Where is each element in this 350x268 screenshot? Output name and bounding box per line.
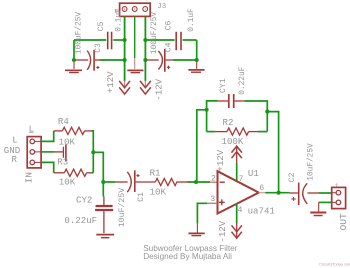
capacitor C6 bbox=[176, 32, 181, 50]
wire J3 pin2 to GND bbox=[134, 17, 136, 59]
svg-text:C5: C5 bbox=[97, 22, 106, 32]
svg-text:10K: 10K bbox=[59, 137, 76, 148]
svg-text:-12V: -12V bbox=[217, 220, 228, 242]
svg-text:C6: C6 bbox=[165, 21, 174, 31]
svg-text:OUT: OUT bbox=[338, 213, 349, 231]
wire J3 pin3 to -12V bbox=[144, 17, 146, 82]
supply -12V arrow (power section) bbox=[140, 81, 151, 95]
resistor R4 bbox=[54, 127, 92, 134]
wire top rail right (C6 rail) bbox=[145, 39, 174, 41]
svg-text:0.1uF: 0.1uF bbox=[188, 8, 196, 32]
wire C3 to +12V rail bbox=[100, 59, 125, 61]
junction right ground node bbox=[195, 58, 199, 62]
wire CY1 right bbox=[245, 101, 268, 132]
svg-text:U1: U1 bbox=[248, 168, 259, 179]
svg-text:-12V: -12V bbox=[154, 78, 165, 100]
svg-text:2: 2 bbox=[211, 175, 216, 184]
junction feedback right bbox=[265, 110, 269, 114]
junction +12V/C3 bbox=[123, 58, 127, 62]
wire L pin to R4 bbox=[41, 131, 54, 142]
supply -12V arrow (opamp) bbox=[232, 223, 242, 239]
junction output node bbox=[277, 191, 281, 195]
junction feedback left bbox=[205, 108, 209, 112]
capacitor C3 bbox=[76, 50, 100, 71]
resistor R2 bbox=[207, 128, 268, 135]
svg-text:10K: 10K bbox=[150, 186, 167, 197]
resistor R1 bbox=[155, 178, 187, 185]
capacitor C5 bbox=[108, 32, 112, 50]
junction +12V/C5 bbox=[123, 38, 127, 42]
wire R pin to R3 bbox=[41, 162, 54, 172]
feedback left rail vertical bbox=[207, 101, 218, 132]
svg-text:100uF/25V: 100uF/25V bbox=[75, 12, 83, 54]
svg-text:6: 6 bbox=[259, 184, 264, 193]
wire node to C1 bbox=[103, 181, 115, 183]
svg-text:10uF/25V: 10uF/25V bbox=[308, 143, 316, 181]
wire R1 to opamp bbox=[187, 181, 210, 183]
svg-text:0.1uF: 0.1uF bbox=[115, 8, 123, 32]
wire output pin2 to ground bbox=[319, 201, 332, 203]
wire sum node branch bbox=[93, 152, 103, 196]
svg-text:R1: R1 bbox=[150, 168, 161, 179]
svg-text:R3: R3 bbox=[57, 156, 68, 167]
svg-text:100uF/25V: 100uF/25V bbox=[151, 12, 159, 54]
supply +12V arrow (power section) bbox=[119, 81, 130, 95]
junction feedback node bbox=[194, 180, 198, 184]
wire left vertical to C3 node bbox=[73, 40, 75, 60]
wire pin7 bbox=[236, 163, 238, 181]
wire output bbox=[265, 192, 289, 194]
svg-text:R: R bbox=[12, 154, 18, 165]
svg-text:+12V: +12V bbox=[215, 149, 226, 171]
svg-text:CircuitsToday.com: CircuitsToday.com bbox=[319, 261, 350, 266]
ground (input, rotated) bbox=[54, 145, 66, 162]
wire C4 to right ground node bbox=[173, 59, 197, 61]
wire feedback right to output bbox=[267, 112, 278, 193]
wire GND pin bbox=[41, 151, 54, 153]
feedback wire left vertical bbox=[197, 110, 207, 182]
opamp plus sign bbox=[219, 199, 225, 205]
opamp pin2 stub bbox=[210, 181, 218, 183]
supply +12V arrow (opamp) bbox=[232, 146, 242, 163]
svg-text:CY1: CY1 bbox=[219, 78, 228, 93]
svg-text:ua741: ua741 bbox=[248, 206, 276, 217]
wire R3 right to sum node bbox=[92, 172, 94, 174]
svg-text:4: 4 bbox=[238, 206, 243, 215]
capacitor C4 bbox=[147, 49, 173, 72]
capacitor CY1 bbox=[218, 94, 245, 108]
ground (left power) bbox=[65, 62, 82, 73]
ground (middle power) bbox=[127, 58, 143, 73]
opamp pin6 stub bbox=[259, 192, 266, 194]
ground (opamp) bbox=[188, 223, 204, 235]
svg-text:C1: C1 bbox=[137, 192, 146, 202]
svg-text:CY2: CY2 bbox=[76, 195, 92, 206]
output connector bbox=[332, 187, 346, 208]
svg-text:10K: 10K bbox=[59, 177, 76, 188]
svg-text:3: 3 bbox=[210, 195, 215, 204]
ground (CY2) bbox=[96, 235, 114, 238]
svg-text:+12V: +12V bbox=[105, 71, 116, 93]
svg-text:Designed By Mujtaba Ali: Designed By Mujtaba Ali bbox=[143, 252, 232, 261]
svg-text:J3: J3 bbox=[157, 3, 167, 11]
svg-text:IN: IN bbox=[24, 172, 35, 184]
wire pin4 bbox=[236, 204, 238, 224]
capacitor CY2 bbox=[95, 197, 113, 234]
ground (right power) bbox=[188, 61, 204, 72]
opamp pin3 stub bbox=[207, 202, 218, 204]
capacitor C1 bbox=[116, 170, 156, 192]
wire J3 pin1 to +12V bbox=[124, 17, 126, 82]
wire top rail left (C5 rail) bbox=[74, 39, 106, 41]
svg-text:0.22uF: 0.22uF bbox=[239, 66, 247, 94]
svg-text:R2: R2 bbox=[223, 117, 234, 128]
ground (output) bbox=[310, 202, 326, 215]
svg-text:C4: C4 bbox=[165, 42, 174, 52]
wire R4 to sum node bbox=[92, 131, 94, 173]
svg-text:R4: R4 bbox=[58, 116, 69, 127]
junction -12V/C6 bbox=[143, 38, 147, 42]
svg-text:7: 7 bbox=[239, 175, 244, 184]
opamp minus sign bbox=[220, 181, 225, 183]
wire pin3 to ground bbox=[197, 203, 207, 223]
junction sum node bbox=[91, 150, 95, 154]
svg-text:C3: C3 bbox=[94, 43, 103, 53]
input connector bbox=[27, 137, 41, 168]
svg-text:100K: 100K bbox=[222, 136, 244, 147]
svg-text:L: L bbox=[29, 124, 34, 135]
svg-text:10uF/25V: 10uF/25V bbox=[117, 188, 127, 227]
connector J3 bbox=[120, 3, 151, 16]
resistor R3 bbox=[54, 169, 92, 176]
capacitor C2 bbox=[290, 183, 319, 205]
junction C3 node bbox=[72, 58, 76, 62]
junction C1 node bbox=[101, 180, 105, 184]
svg-text:0.22uF: 0.22uF bbox=[64, 215, 97, 226]
svg-text:C2: C2 bbox=[288, 173, 297, 183]
wire C2 to output connector bbox=[319, 192, 332, 194]
wire C6 rail down bbox=[196, 40, 198, 60]
junction -12V/C4 bbox=[143, 58, 147, 62]
svg-text:L: L bbox=[12, 134, 17, 145]
opamp U1 bbox=[218, 171, 259, 213]
